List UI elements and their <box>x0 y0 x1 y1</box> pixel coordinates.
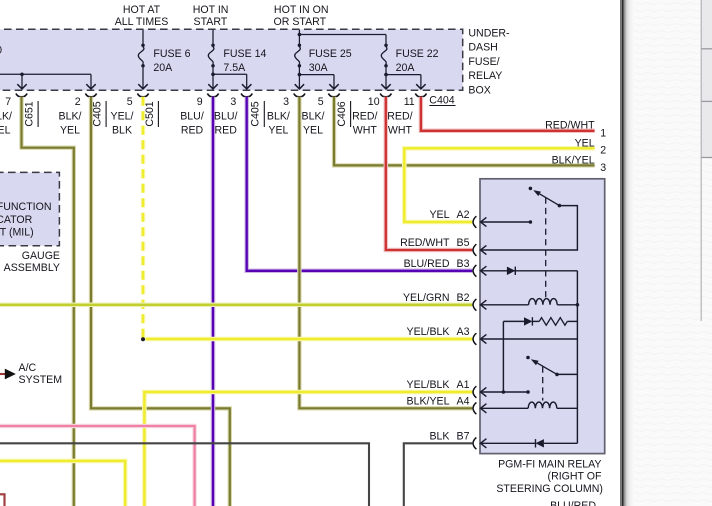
svg-text:C405: C405 <box>250 101 262 126</box>
svg-text:YEL: YEL <box>268 125 288 137</box>
svg-text:BLK/: BLK/ <box>59 110 82 122</box>
svg-text:BLK/: BLK/ <box>302 110 325 122</box>
relay internal: switch 1 to B5 <box>482 206 578 250</box>
svg-text:7.5A: 7.5A <box>223 62 246 74</box>
relay internal: switch 1 pivot <box>529 187 533 191</box>
fuse F22 20A <box>385 35 387 44</box>
svg-text:HOT IN ON: HOT IN ON <box>274 4 329 16</box>
wire YEL/BLK to relay A3 <box>146 337 473 342</box>
wire YEL/BLK to relay A1 <box>144 392 472 506</box>
wire BLK/YEL from connector 5 to off-page 3 <box>334 97 595 166</box>
svg-text:A1: A1 <box>457 379 470 391</box>
svg-text:RED/WHT: RED/WHT <box>400 237 450 249</box>
svg-text:7: 7 <box>5 96 11 108</box>
svg-text:30A: 30A <box>309 62 329 74</box>
svg-text:11: 11 <box>404 96 415 108</box>
relay internal: switch 1 arm <box>558 204 562 208</box>
svg-text:MALFUNCTION: MALFUNCTION <box>0 201 52 213</box>
svg-text:5: 5 <box>127 96 133 108</box>
node: junction dot YEL/BLK <box>141 337 145 341</box>
svg-text:RED/: RED/ <box>387 110 412 122</box>
svg-text:PGM-FI MAIN RELAY: PGM-FI MAIN RELAY <box>498 458 601 470</box>
svg-text:BOX: BOX <box>468 85 490 97</box>
svg-text:A3: A3 <box>457 326 470 338</box>
svg-text:3: 3 <box>600 162 606 174</box>
diode D3 on B7 <box>536 439 544 447</box>
svg-text:LIGHT (MIL): LIGHT (MIL) <box>0 227 34 239</box>
svg-text:BLK/YEL: BLK/YEL <box>407 396 450 408</box>
svg-text:20A: 20A <box>153 62 173 74</box>
svg-text:RED/: RED/ <box>352 110 377 122</box>
wire PNK crossing <box>0 426 195 506</box>
wire YEL/GRN to relay B2 <box>0 303 472 308</box>
svg-text:HOT IN: HOT IN <box>193 4 229 16</box>
svg-text:OR START: OR START <box>274 16 327 28</box>
svg-text:FUSE 25: FUSE 25 <box>309 48 352 60</box>
relay internal: B7 diode line <box>482 442 536 444</box>
svg-text:WHT: WHT <box>388 125 413 137</box>
relay internal: resistor R1 + diode D2 branch <box>503 320 524 322</box>
svg-text:BLK/YEL: BLK/YEL <box>552 155 595 167</box>
svg-text:WHT: WHT <box>353 125 378 137</box>
wire YEL lower-left off-page <box>0 461 125 506</box>
svg-text:YEL: YEL <box>0 125 11 137</box>
relay internal: coil L1 on B2 <box>482 304 529 306</box>
svg-text:2: 2 <box>600 145 606 157</box>
wire BLK/YEL from connector 7 <box>22 97 74 506</box>
svg-text:BLK/: BLK/ <box>267 110 290 122</box>
svg-text:20A: 20A <box>396 62 416 74</box>
svg-text:YEL/BLK: YEL/BLK <box>407 326 450 338</box>
svg-text:A4: A4 <box>457 396 470 408</box>
svg-text:GAUGE: GAUGE <box>22 250 60 262</box>
svg-text:C405: C405 <box>92 101 104 126</box>
relay internal: A3 line <box>482 338 578 340</box>
svg-text:UNDER-: UNDER- <box>468 27 510 39</box>
relay internal: A1 line <box>482 391 528 393</box>
relay internal: dashed actuator link 1 <box>545 198 547 302</box>
wire BLK from off-page to relay B7 <box>404 443 473 506</box>
svg-text:A/C: A/C <box>19 362 37 374</box>
relay internal: switch 2 arm <box>555 373 559 377</box>
relay internal: dashed actuator link 2 <box>542 367 544 401</box>
svg-text:DASH: DASH <box>468 42 497 54</box>
svg-text:B2: B2 <box>457 292 470 304</box>
svg-text:YEL/GRN: YEL/GRN <box>403 292 450 304</box>
wire BLK/YEL from connector 2 to A4 branch going off-page <box>91 97 230 506</box>
wire BLK/YEL from connector 3 to relay A4 <box>299 97 472 409</box>
svg-text:YEL: YEL <box>60 125 80 137</box>
fuse F14 7.5A <box>212 30 214 44</box>
svg-text:C406: C406 <box>336 101 348 126</box>
wire: feed to connectors 7 and 2 <box>0 73 91 75</box>
PGM-FI main relay box U1 <box>480 179 605 454</box>
svg-text:HOT AT: HOT AT <box>123 4 161 16</box>
svg-text:C651: C651 <box>24 101 36 126</box>
relay internal: B3 diode line <box>482 270 578 272</box>
svg-text:B5: B5 <box>457 237 470 249</box>
svg-text:SYSTEM: SYSTEM <box>19 374 63 386</box>
svg-text:BLU/RED: BLU/RED <box>550 500 596 506</box>
svg-text:3: 3 <box>283 96 289 108</box>
svg-text:STEERING COLUMN): STEERING COLUMN) <box>496 483 603 495</box>
wire RED/WHT from connector 10 to relay B5 <box>386 97 473 250</box>
svg-text:C501: C501 <box>144 101 156 126</box>
svg-text:YEL: YEL <box>575 137 595 149</box>
wire RED/WHT from connector 11 to off-page 1 <box>421 97 595 131</box>
wire YEL off-page 2 to relay A2 <box>404 148 594 222</box>
svg-text:BLK/: BLK/ <box>0 110 12 122</box>
gauge assembly box with MIL <box>0 172 59 245</box>
wire BLU/RED from connector 9 <box>211 97 216 506</box>
wire BLU/RED from connector 3 to relay B3 <box>247 97 473 271</box>
svg-text:YEL/BLK: YEL/BLK <box>407 379 450 391</box>
svg-text:ASSEMBLY: ASSEMBLY <box>4 262 60 274</box>
svg-text:RED/WHT: RED/WHT <box>545 120 595 132</box>
svg-text:RED: RED <box>181 125 204 137</box>
svg-text:YEL/: YEL/ <box>111 110 134 122</box>
svg-text:RED: RED <box>215 125 238 137</box>
svg-text:BLU/RED: BLU/RED <box>404 258 450 270</box>
svg-text:10: 10 <box>368 96 380 108</box>
svg-text:INDICATOR: INDICATOR <box>0 214 33 226</box>
svg-text:1: 1 <box>600 128 606 140</box>
fuse F25 30A <box>298 30 300 44</box>
table sliver on far right <box>702 0 712 158</box>
A/C system arrow <box>5 369 16 380</box>
svg-text:BLU/: BLU/ <box>214 110 238 122</box>
partial dark red box bottom-left <box>0 494 5 506</box>
relay pin terminals <box>473 216 476 228</box>
relay internal: main right vertical <box>576 271 578 444</box>
wire RED to A/C system <box>0 373 5 375</box>
svg-text:YEL: YEL <box>303 125 323 137</box>
svg-text:(RIGHT OF: (RIGHT OF <box>548 471 602 483</box>
svg-text:FUSE 6: FUSE 6 <box>153 48 190 60</box>
diode D1 on B3 <box>507 267 515 275</box>
relay internal: A2 contact line <box>482 221 531 223</box>
svg-text:ALL TIMES: ALL TIMES <box>115 16 169 28</box>
svg-text:FUSE/: FUSE/ <box>468 56 499 68</box>
svg-text:FUSE 14: FUSE 14 <box>223 48 266 60</box>
svg-text:START: START <box>194 16 228 28</box>
svg-text:BLK: BLK <box>429 431 449 443</box>
page right edge shadow <box>620 0 712 506</box>
relay internal: switch 2 to vertical <box>557 373 577 375</box>
svg-text:C404: C404 <box>429 94 454 106</box>
relay internal: vertical to A1 <box>502 321 504 392</box>
svg-text:A2: A2 <box>457 209 470 221</box>
relay internal: coil L2 on A4 <box>482 407 529 409</box>
fuse F6 20A <box>142 30 144 44</box>
relay internal: switch 2 pivot <box>526 356 530 360</box>
svg-text:B3: B3 <box>457 258 470 270</box>
svg-text:BLK: BLK <box>112 125 132 137</box>
wire YEL/BLK dashed from connector 5 (C501) <box>141 97 146 338</box>
svg-text:B7: B7 <box>457 431 470 443</box>
under-dash fuse/relay box <box>0 29 463 90</box>
svg-text:0: 0 <box>0 45 2 57</box>
svg-text:9: 9 <box>197 96 203 108</box>
svg-text:FUSE 22: FUSE 22 <box>396 48 439 60</box>
svg-text:BLU/: BLU/ <box>180 110 204 122</box>
svg-text:YEL: YEL <box>429 209 449 221</box>
svg-text:3: 3 <box>230 96 236 108</box>
svg-text:RELAY: RELAY <box>468 70 502 82</box>
svg-text:2: 2 <box>75 96 81 108</box>
wire BLK long to off-page bottom <box>0 443 369 506</box>
svg-text:5: 5 <box>318 96 324 108</box>
connector hats at fuse box outputs <box>16 94 27 97</box>
